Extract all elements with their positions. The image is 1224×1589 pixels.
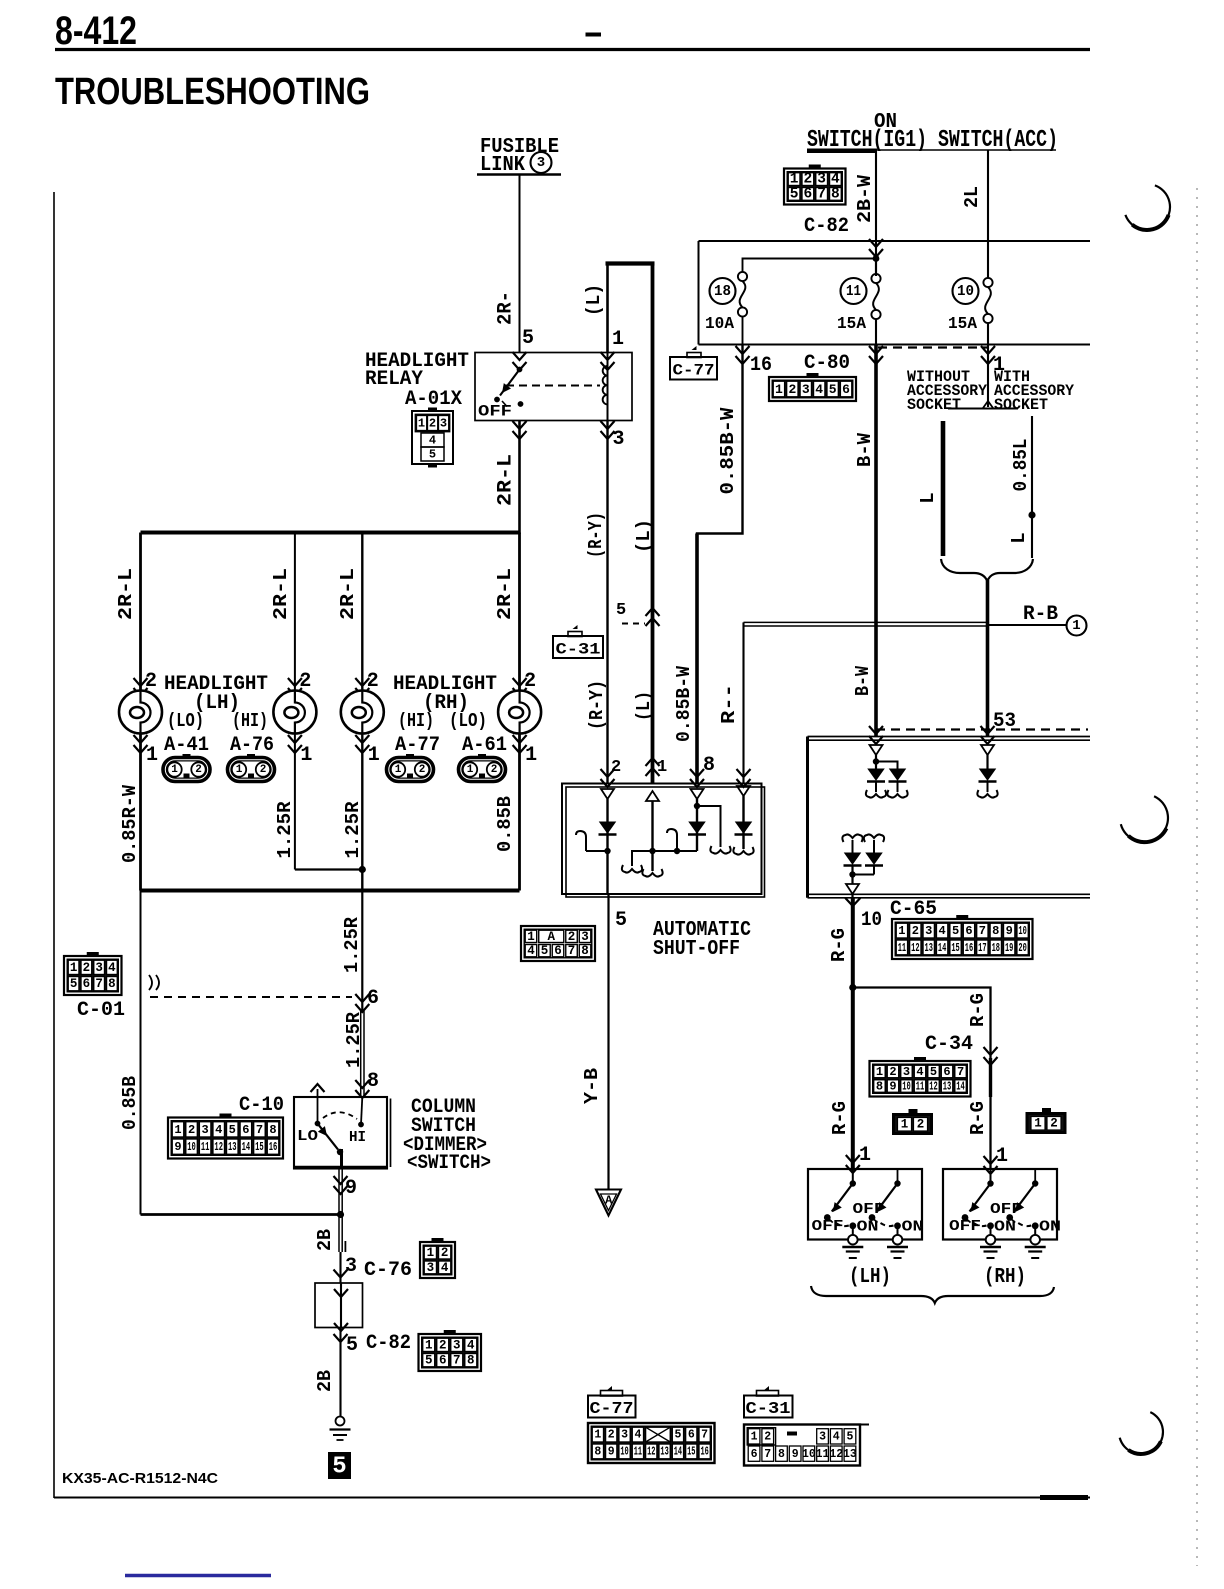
svg-text:(LO): (LO) (167, 710, 204, 732)
circled 1 connector arrow (1067, 616, 1087, 636)
svg-text:0.85B-W: 0.85B-W (673, 665, 695, 742)
svg-text:C-31: C-31 (746, 1400, 791, 1419)
underbrace below switch boxes (811, 1286, 1054, 1303)
svg-text:HI: HI (349, 1129, 366, 1146)
svg-text:4: 4 (527, 944, 535, 958)
svg-text:0.85R-W: 0.85R-W (119, 784, 141, 863)
svg-text:15: 15 (687, 1445, 695, 1458)
junction dot wires 2-3 (359, 866, 366, 873)
arrows at pin 6 (355, 994, 369, 1012)
connector C-34 icon (914, 1057, 926, 1062)
connector C-77 pin grid (588, 1423, 715, 1463)
arrows at pin 8 (355, 1080, 369, 1098)
svg-text:ON: ON (857, 1219, 879, 1236)
svg-text:2: 2 (788, 382, 796, 397)
junction dot R-Y leg (604, 848, 610, 854)
svg-text:4: 4 (815, 382, 823, 397)
svg-text:9: 9 (889, 1080, 896, 1094)
svg-text:R-G: R-G (829, 1101, 851, 1135)
svg-text:1.25R: 1.25R (341, 916, 363, 973)
arrows at pin 3 (334, 1270, 348, 1278)
svg-text:6: 6 (804, 186, 813, 202)
svg-text:LO: LO (297, 1128, 318, 1145)
shut-off pin triangle R-Y (601, 789, 614, 799)
relay switch lower contact (518, 401, 524, 407)
connector icon C-77 (bottom label) (606, 1386, 612, 1391)
arrows into bulb LO-RH (513, 678, 527, 696)
wire 2B-W from junction to fuse 11 (875, 259, 877, 275)
junction dot with 0.85B return (337, 1211, 344, 1218)
arrow into relay pin 5 (513, 352, 527, 370)
svg-text:10: 10 (620, 1445, 628, 1458)
column switch LO contact (317, 1097, 319, 1124)
svg-text:3: 3 (613, 428, 625, 451)
headlight wire 3 drop (361, 533, 363, 891)
svg-text:7: 7 (764, 1448, 771, 1461)
svg-text:3: 3 (453, 1338, 461, 1352)
connector icon C-31 (mid) (573, 625, 578, 629)
svg-text:2R-L: 2R-L (337, 568, 359, 620)
circled 10 (953, 278, 979, 304)
svg-text:11: 11 (916, 1080, 925, 1094)
svg-text:4: 4 (108, 961, 116, 975)
svg-text:6: 6 (751, 1448, 758, 1461)
svg-text:1.25R: 1.25R (274, 801, 296, 859)
svg-text:10: 10 (902, 1080, 911, 1094)
svg-text:KX35-AC-R1512-N4C: KX35-AC-R1512-N4C (62, 1470, 218, 1487)
connector C-31 pin grid (744, 1425, 860, 1466)
arrows into bulb HI-LH (288, 678, 302, 696)
svg-text:6: 6 (943, 1065, 950, 1079)
connector C-76 icon (432, 1238, 444, 1243)
continuation squiggle at C-01 (149, 975, 159, 990)
svg-text:SOCKET: SOCKET (907, 396, 961, 414)
svg-text:B-W: B-W (854, 432, 876, 467)
svg-text:1.25R: 1.25R (343, 1011, 365, 1068)
junction dot on 0.85L (1028, 511, 1035, 518)
branch to second diode (876, 762, 898, 770)
svg-text:OFF: OFF (812, 1218, 844, 1235)
ground RH switch 2 (1030, 1235, 1040, 1245)
svg-text:8: 8 (581, 944, 589, 958)
svg-text:13: 13 (228, 1140, 237, 1154)
headlight bulb HI-RH (341, 691, 384, 734)
svg-text:13: 13 (943, 1080, 952, 1094)
svg-text:2: 2 (1050, 1117, 1058, 1131)
arrows into bulb LO-LH (134, 678, 148, 696)
svg-text:2: 2 (188, 1123, 195, 1137)
pin 10 triangle out (846, 884, 859, 894)
diode on R-Y leg (600, 822, 616, 833)
svg-text:6: 6 (242, 1123, 249, 1137)
svg-text:7: 7 (95, 977, 103, 991)
svg-text:1: 1 (876, 1065, 883, 1079)
svg-text:SHUT-OFF: SHUT-OFF (653, 938, 740, 961)
connector A-76 icon (228, 758, 275, 782)
svg-text:5: 5 (674, 1429, 681, 1442)
svg-text:2: 2 (439, 1338, 447, 1352)
shut-off pin triangle L (up) (646, 791, 659, 801)
svg-text:TROUBLESHOOTING: TROUBLESHOOTING (55, 71, 370, 113)
svg-text:SOCKET: SOCKET (994, 396, 1048, 414)
svg-text:9: 9 (608, 1445, 615, 1458)
wire 2L from SWITCH(ACC) (987, 150, 989, 278)
lower diode pair hooks on top (842, 834, 862, 842)
svg-text:7: 7 (453, 1354, 461, 1368)
header dash mark (586, 33, 602, 37)
svg-text:2B: 2B (314, 1370, 336, 1392)
svg-text:1: 1 (859, 1144, 871, 1167)
svg-text:5: 5 (332, 1454, 346, 1481)
shut-off pin triangle R- (737, 786, 750, 796)
svg-text:OFF: OFF (949, 1218, 981, 1235)
svg-text:1: 1 (300, 744, 312, 767)
svg-text:12: 12 (829, 1448, 843, 1461)
arrows into LH switch (846, 1155, 860, 1173)
shut-off internal wire B-W leg (696, 799, 698, 851)
lower diode pair (852, 840, 854, 853)
fuse 10 lower stub (987, 323, 989, 345)
LH switch 1 contact arm (852, 1169, 854, 1184)
svg-text:11: 11 (846, 283, 861, 300)
svg-text:3: 3 (537, 155, 545, 171)
shut-off internal wire L leg (651, 801, 653, 871)
RH switch 2 contact arm (1034, 1169, 1036, 1184)
svg-text:4: 4 (831, 172, 840, 188)
pass-through junction box C-76/C-82 (315, 1283, 363, 1328)
column switch HI contact (361, 1097, 362, 1125)
svg-text:5: 5 (429, 448, 436, 462)
svg-text:20: 20 (1018, 941, 1026, 955)
svg-text:L: L (917, 492, 939, 503)
svg-text:18: 18 (992, 941, 1000, 955)
svg-text:7: 7 (979, 924, 986, 938)
relay switch contact from pin 5 (517, 367, 523, 373)
wire 0.85R-W / 0.85B left return (140, 891, 142, 1215)
dashed pin 5 link to (L) (622, 623, 645, 625)
svg-text:5: 5 (829, 382, 837, 397)
svg-text:1: 1 (427, 1246, 435, 1260)
svg-text:9: 9 (345, 1177, 357, 1200)
shut-off internal wire R-Y (606, 799, 608, 894)
svg-text:13: 13 (660, 1445, 668, 1458)
svg-text:2: 2 (441, 1246, 449, 1260)
svg-text:A-77: A-77 (395, 734, 440, 757)
wire R-B to circled 1 (988, 624, 1067, 626)
svg-text:3: 3 (802, 382, 810, 397)
svg-text:4: 4 (467, 1338, 475, 1352)
svg-text:0.85B-W: 0.85B-W (717, 407, 739, 495)
body ground symbol (336, 1417, 345, 1426)
svg-text:14: 14 (674, 1445, 682, 1458)
arrow into relay pin 1 (601, 352, 615, 370)
svg-text:5: 5 (346, 1334, 358, 1357)
svg-text:3: 3 (427, 1261, 435, 1275)
hook below L leg (642, 869, 662, 877)
svg-text:(R-Y): (R-Y) (586, 680, 608, 730)
svg-text:C-34: C-34 (925, 1033, 973, 1056)
svg-text:5: 5 (615, 909, 627, 932)
svg-text:7: 7 (957, 1065, 964, 1079)
LH switch 2 contact arm (897, 1169, 899, 1184)
svg-text:9: 9 (1006, 924, 1013, 938)
arrow out of relay pin 3 (601, 421, 615, 439)
connector icon C-77 (small, top) (692, 346, 697, 350)
svg-text:1: 1 (395, 764, 402, 776)
svg-text:5: 5 (229, 1123, 236, 1137)
svg-text:2: 2 (804, 172, 813, 188)
relay dashed actuation line (506, 385, 600, 387)
diode under L (986, 755, 988, 769)
svg-text:5: 5 (790, 186, 799, 202)
wire from fuse 18 to junction on 2B-W (743, 259, 877, 273)
column switch pivot dot (337, 1149, 343, 1155)
fuse box outline (699, 240, 1091, 242)
column switch output wire (340, 1149, 343, 1169)
diode box pin triangle L (981, 745, 994, 755)
svg-text:2B-W: 2B-W (854, 174, 876, 223)
svg-text:2: 2 (491, 764, 498, 776)
hooks under B-W diodes (866, 790, 886, 798)
svg-text:11: 11 (201, 1140, 210, 1154)
svg-text:4: 4 (939, 924, 946, 938)
svg-text:3: 3 (925, 924, 932, 938)
svg-text:5: 5 (522, 327, 534, 350)
svg-text:1: 1 (612, 328, 624, 351)
svg-text:1: 1 (898, 924, 905, 938)
svg-text:8: 8 (594, 1445, 601, 1458)
circled 3 fusible link number (531, 152, 552, 173)
svg-text:OFF: OFF (990, 1201, 1022, 1218)
svg-text:2: 2 (568, 930, 576, 944)
arrows into RH switch (984, 1156, 998, 1174)
svg-text:(L): (L) (633, 691, 655, 721)
connector C-01 icon (87, 952, 99, 957)
connector C-10 icon (220, 1114, 232, 1119)
svg-text:1: 1 (368, 744, 380, 767)
svg-text:8: 8 (831, 186, 840, 202)
circled 18 (710, 278, 736, 304)
svg-text:2: 2 (764, 1431, 771, 1444)
svg-text:1: 1 (467, 764, 474, 776)
svg-text:2: 2 (429, 417, 436, 431)
arrows up on L at shut-off (646, 758, 660, 776)
wire R-B horizontal double line (744, 621, 988, 623)
fuse 18 lower stub (742, 317, 744, 345)
svg-text:17: 17 (978, 941, 986, 955)
wire 2B to ground (338, 1215, 340, 1253)
wire R-G trunk from pin 10 (851, 898, 855, 1169)
connector icon C-31 (bottom label) (763, 1386, 769, 1391)
wire 2 jog to wire 3 junction (295, 868, 362, 870)
svg-text:C-77: C-77 (673, 362, 715, 380)
arrows at pin 9 (334, 1176, 348, 1194)
svg-text:8: 8 (467, 1354, 475, 1368)
arrows into shut-off pin 2 (601, 769, 615, 787)
svg-text:7: 7 (701, 1429, 708, 1442)
wire through junction box (340, 1283, 342, 1328)
arrow up on (L) at C-31 crossing (646, 608, 660, 626)
ground LH switch 2 (893, 1235, 903, 1245)
svg-text:C-01: C-01 (77, 999, 125, 1022)
fuse 18 symbol (738, 272, 747, 281)
svg-text:(L): (L) (583, 284, 605, 316)
svg-text:6: 6 (688, 1429, 695, 1442)
svg-text:1: 1 (418, 417, 425, 431)
wire 1.25R below headlight box (361, 891, 363, 1012)
diode box pin triangle B-W (870, 745, 883, 755)
scan dotted vertical right edge (1196, 188, 1198, 1566)
svg-text:4: 4 (429, 434, 436, 448)
headlight relay A-01X box (475, 353, 632, 421)
wire Y-B from shut-off pin 5 (607, 894, 609, 1190)
wire 2B to body ground (339, 1328, 341, 1417)
svg-text:R-G: R-G (828, 928, 850, 962)
double wire to column switch (360, 1011, 362, 1097)
svg-text:8: 8 (108, 977, 116, 991)
svg-text:14: 14 (938, 941, 946, 955)
left margin line (53, 192, 55, 1498)
shut-off internal wire R- leg (742, 796, 744, 849)
svg-text:3: 3 (621, 1429, 628, 1442)
svg-text:1: 1 (425, 1338, 433, 1352)
svg-text:R-G: R-G (967, 993, 989, 1027)
svg-text:13: 13 (925, 941, 933, 955)
svg-text:5: 5 (616, 601, 626, 620)
svg-text:2: 2 (419, 764, 426, 776)
connector C-82 (upper icon) (809, 165, 821, 170)
retractable headlight switch box LH (808, 1169, 922, 1240)
dashed option line below fuse box (878, 346, 988, 348)
hook under L diode (977, 790, 997, 798)
headlight bulb LO-LH (119, 691, 162, 734)
svg-text:1: 1 (174, 1123, 181, 1137)
svg-text:1: 1 (146, 744, 158, 767)
svg-text:2: 2 (912, 924, 919, 938)
arrows into shut-off pin 8 (690, 769, 704, 787)
option merge underbrace (941, 559, 1033, 581)
junction dot L leg (649, 848, 655, 854)
svg-text:8: 8 (703, 754, 715, 777)
svg-text:2R-L: 2R-L (270, 568, 292, 620)
wire R- from R-B line to shut-off (742, 622, 744, 783)
svg-text:A-41: A-41 (164, 734, 209, 757)
hook branch on R-Y leg (586, 850, 608, 852)
(L) feed cap bar (606, 261, 655, 265)
svg-text:2: 2 (260, 764, 267, 776)
svg-text:4: 4 (441, 1261, 449, 1275)
svg-text:1: 1 (594, 1429, 601, 1442)
svg-text:3: 3 (819, 1431, 826, 1444)
svg-text:8: 8 (778, 1448, 785, 1461)
svg-text:B-W: B-W (852, 665, 874, 696)
svg-text:5: 5 (541, 944, 549, 958)
svg-text:<SWITCH>: <SWITCH> (407, 1152, 491, 1175)
svg-text:A: A (605, 1194, 613, 1208)
svg-text:5: 5 (846, 1431, 853, 1444)
connector C-65 icon (956, 915, 968, 920)
svg-text:6: 6 (83, 977, 91, 991)
RH switch 1 contact arm (990, 1169, 992, 1184)
svg-text:19: 19 (1005, 941, 1013, 955)
svg-text:1: 1 (790, 172, 799, 188)
svg-text:4: 4 (916, 1065, 923, 1079)
svg-text:12: 12 (929, 1080, 938, 1094)
svg-text:ON: ON (1039, 1219, 1061, 1236)
diode on B-W leg (689, 822, 705, 833)
column switch dashed arc (323, 1112, 357, 1119)
arrows out of diode box pin 10 (845, 898, 860, 906)
arrows out of bulb LO-RH (513, 735, 527, 753)
svg-text:1: 1 (901, 1118, 909, 1132)
connector 1-2 icon left (909, 1109, 918, 1114)
svg-text:2: 2 (917, 1118, 925, 1132)
hook below R- leg (733, 847, 753, 855)
svg-text:C-77: C-77 (590, 1400, 634, 1419)
connector C-80 icon (807, 373, 819, 378)
connector A-41 icon (163, 758, 210, 782)
svg-text:C-80: C-80 (804, 352, 850, 375)
connector A-61 icon (459, 758, 506, 782)
svg-text:2: 2 (195, 764, 202, 776)
svg-text:2R-L: 2R-L (495, 454, 518, 506)
svg-text:C-10: C-10 (239, 1094, 284, 1117)
arrow on B-W entering diode box (869, 726, 883, 744)
connector A-77 icon (387, 758, 434, 782)
svg-text:R-G: R-G (967, 1101, 989, 1135)
blue scan mark line (125, 1574, 271, 1577)
svg-text:16: 16 (700, 1445, 708, 1458)
arrows into shut-off R- pin (737, 769, 751, 787)
svg-text:6: 6 (842, 382, 850, 397)
headlight bulb HI-LH (273, 691, 316, 734)
svg-text:(RH): (RH) (984, 1266, 1026, 1289)
junction dot R-G split (849, 984, 856, 991)
double wire below column switch (338, 1169, 340, 1215)
relay coil (607, 353, 609, 421)
connector icon 1A23/45678 (mid) (521, 926, 595, 961)
punch hole crescent top (1125, 185, 1170, 230)
svg-text:C-31: C-31 (556, 641, 601, 659)
svg-text:5: 5 (425, 1354, 433, 1368)
wire (R-Y) from relay pin 3 to shut-off (606, 421, 608, 784)
svg-text:4: 4 (634, 1429, 641, 1442)
svg-text:3: 3 (345, 1255, 357, 1278)
dashed C-01 link line (150, 996, 352, 998)
svg-text:8: 8 (269, 1123, 276, 1137)
arrows into bulb HI-RH (355, 678, 369, 696)
diode on R- leg (736, 822, 752, 833)
svg-text:16: 16 (750, 354, 772, 377)
svg-text:A-61: A-61 (462, 734, 507, 757)
svg-text:12: 12 (911, 941, 919, 955)
branch right from L leg to hook (653, 850, 698, 852)
svg-text:3: 3 (581, 930, 589, 944)
arrow out of fuse 11 (869, 346, 883, 364)
svg-text:13: 13 (843, 1448, 857, 1461)
ground LH switch 1 (848, 1235, 858, 1245)
svg-text:4: 4 (215, 1123, 222, 1137)
svg-text:1: 1 (751, 1431, 758, 1444)
fuse 11 lower stub (875, 319, 877, 345)
wire 2R-L from relay to headlight box (518, 421, 521, 535)
arrow on RH R-G at C-34 (984, 1047, 998, 1065)
svg-text:6: 6 (367, 987, 379, 1010)
svg-text:A-76: A-76 (230, 734, 274, 757)
wire out of diode box pin 10 (851, 894, 853, 898)
svg-text:9: 9 (792, 1448, 799, 1461)
svg-text:OFF: OFF (478, 403, 512, 421)
